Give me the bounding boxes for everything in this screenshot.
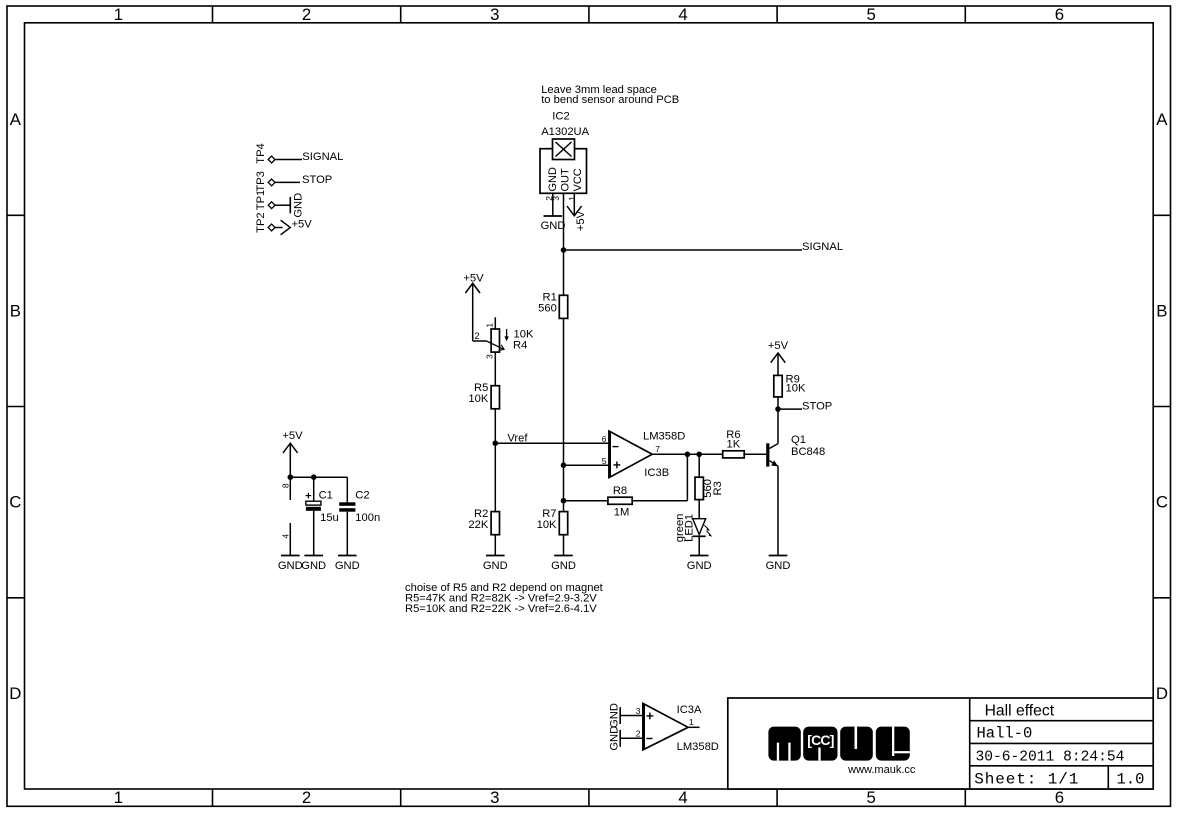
svg-text:4: 4 [678,5,687,24]
wire signal node to R1 [563,250,565,295]
wire R1 down to op-amp input line [563,318,565,511]
test point TP2 [255,212,275,233]
wire +5V rail to C1 C2 [290,476,347,478]
svg-text:3: 3 [490,5,499,24]
svg-text:GND: GND [687,560,712,572]
svg-text:22K: 22K [468,519,488,531]
svg-text:6: 6 [1055,788,1064,807]
svg-text:+5V: +5V [282,430,303,442]
wire Vref to op-amp pin 6 [495,442,609,444]
wire TP1 to GND [275,204,290,206]
ground (C2) [335,556,360,573]
wire op-amp output to Q1 base [652,453,766,455]
junction (STOP node) [775,406,781,412]
wire IC3A output pin 1 [688,726,700,728]
test point TP1 [255,190,275,211]
wire feedback to R8 [564,500,688,502]
ground (IC2 pin 2) [541,216,566,232]
ground (R7) [551,556,576,573]
resistor R1 560 [538,292,568,319]
wire IC3A pin 2 [620,737,643,739]
wire R3 branch down [698,454,700,477]
svg-text:GND: GND [608,726,620,751]
svg-text:C: C [1156,493,1168,512]
svg-text:30-6-2011 8:24:54: 30-6-2011 8:24:54 [976,750,1125,766]
test point TP3 [255,171,275,192]
svg-text:1.0: 1.0 [1117,771,1145,789]
junction (output / R8) [685,452,691,458]
svg-text:7: 7 [655,444,660,454]
svg-text:TP2: TP2 [255,212,267,233]
svg-text:3: 3 [490,788,499,807]
svg-text:10K: 10K [537,519,557,531]
svg-text:A: A [10,110,22,129]
svg-text:VCC: VCC [572,168,584,191]
svg-text:TP3: TP3 [255,171,267,192]
supply +5V (R9) [768,340,789,376]
wire TP2 to +5V [275,227,283,229]
resistor R5 10K [468,382,499,409]
svg-text:R8: R8 [613,485,627,497]
resistor R6 1K [723,429,745,458]
svg-text:1: 1 [689,717,694,727]
svg-text:SIGNAL: SIGNAL [302,151,343,163]
svg-text:10K: 10K [786,383,806,395]
svg-text:STOP: STOP [302,174,332,186]
resistor R9 10K [774,373,806,397]
wire IC2 pin 2 to ground [552,193,554,216]
svg-text:B: B [10,301,21,320]
svg-text:R4: R4 [513,340,527,352]
ground (TP1, rotated) [290,193,304,218]
svg-text:Q1: Q1 [791,434,806,446]
svg-text:5: 5 [867,788,876,807]
pin 8 stub of IC3 [281,477,291,500]
title block [728,698,1153,789]
MAUK logo [768,727,915,776]
capacitor C1 [306,477,339,555]
wire R3 to LED1 [698,500,700,519]
supply +5V (decoupling rail) [282,430,303,477]
supply +5V (IC2 pin 1, down arrow) [567,193,587,231]
ground (IC3A pin 3, rotated) [608,703,620,728]
ground (IC3A pin 2, rotated) [608,726,620,751]
wire R9 to STOP node [777,397,779,409]
test point TP4 [255,143,275,164]
svg-text:1M: 1M [614,507,630,519]
svg-text:[CC]: [CC] [807,732,833,748]
wire R5 down through Vref to R2 [494,409,496,512]
svg-text:1: 1 [114,788,123,807]
ground (IC3 pin 4) [278,556,303,573]
svg-text:3: 3 [636,706,641,716]
svg-text:+5V: +5V [292,219,313,231]
svg-text:GND: GND [547,167,559,192]
svg-text:GND: GND [608,703,620,728]
resistor R3 560 [695,477,724,499]
svg-text:GND: GND [278,560,303,572]
svg-text:2: 2 [302,5,311,24]
ground (R2) [483,556,508,573]
resistor R7 10K [537,508,568,535]
svg-text:+5V: +5V [463,272,484,284]
junction (rail / pin 8) [288,474,294,480]
svg-text:GND: GND [541,220,566,232]
wire TP4 to SIGNAL [275,159,302,161]
svg-text:to bend sensor around PCB: to bend sensor around PCB [541,94,679,106]
junction (output / R3) [696,452,702,458]
svg-text:560: 560 [538,303,557,315]
note: choise of R5 and R2 [405,582,604,615]
wire STOP [778,408,802,410]
wire SIGNAL [564,249,803,251]
transistor Q1 BC848 [766,434,825,467]
svg-text:10K: 10K [514,328,534,340]
wire feedback down from output [686,454,688,500]
supply +5V (R4) [463,272,484,341]
svg-text:IC2: IC2 [552,110,569,122]
svg-text:LM358D: LM358D [643,430,685,442]
wire TP3 to STOP [275,181,300,183]
ground (LED1) [687,556,712,573]
svg-text:Hall effect: Hall effect [985,702,1055,719]
junction (R8 feedback node) [561,498,567,504]
svg-text:1: 1 [484,323,494,328]
svg-text:GND: GND [335,560,360,572]
resistor R8 1M [608,485,632,518]
svg-text:1: 1 [567,196,577,201]
svg-text:BC848: BC848 [791,446,825,458]
svg-text:IC3A: IC3A [677,704,702,716]
svg-text:+5V: +5V [768,340,789,352]
svg-text:GND: GND [301,560,326,572]
svg-text:2: 2 [636,729,641,739]
wire R2 to ground [494,535,496,556]
svg-text:A: A [1156,110,1168,129]
svg-text:10K: 10K [468,393,488,405]
svg-text:Hall-0: Hall-0 [977,725,1033,743]
svg-text:5: 5 [602,456,607,466]
svg-text:OUT: OUT [560,168,572,192]
pin 4 stub of IC3 [281,523,291,556]
svg-text:www.mauk.cc: www.mauk.cc [847,764,916,776]
capacitor C2 [339,477,380,555]
op-amp IC3A LM358D [636,703,719,752]
svg-text:GND: GND [766,560,791,572]
wire +5V to R4 wiper [473,340,487,342]
hall sensor IC2 A1302UA [540,110,590,200]
note: leave 3mm lead space [541,84,679,106]
svg-text:6: 6 [602,434,607,444]
wire to op-amp pin 5 [564,464,610,466]
wire Q1 collector up to STOP node [777,409,779,444]
ground (C1) [301,556,326,573]
svg-text:D: D [9,684,21,703]
svg-text:GND: GND [483,560,508,572]
svg-text:R3: R3 [712,481,724,495]
svg-text:C2: C2 [355,489,369,501]
svg-text:1K: 1K [727,439,741,451]
svg-text:C: C [9,493,21,512]
ground (Q1) [766,556,791,573]
wire Q1 emitter to ground [777,466,779,555]
wire R7 to ground [563,535,565,556]
svg-text:5: 5 [867,5,876,24]
svg-text:3: 3 [484,354,494,359]
wire IC3A pin 3 [620,715,643,717]
svg-text:D: D [1156,684,1168,703]
svg-text:2: 2 [474,331,479,342]
wire LED1 to ground [698,536,700,555]
svg-text:4: 4 [678,788,687,807]
svg-text:C1: C1 [319,489,333,501]
svg-text:IC3B: IC3B [644,467,669,479]
svg-text:SIGNAL: SIGNAL [802,241,843,253]
svg-text:LED1: LED1 [683,514,695,542]
LED LED1 green [674,514,712,543]
svg-text:Sheet: 1/1: Sheet: 1/1 [974,770,1079,788]
svg-text:+5V: +5V [575,210,587,231]
junction (rail / C1) [311,474,317,480]
svg-text:STOP: STOP [802,400,832,412]
junction (Vref node) [493,440,499,446]
potentiometer R4 10K [474,317,534,359]
svg-text:A1302UA: A1302UA [541,126,589,138]
svg-text:TP1: TP1 [255,190,267,211]
svg-text:GND: GND [292,193,304,218]
svg-text:TP4: TP4 [255,143,267,164]
svg-text:1: 1 [114,5,123,24]
junction (pin 5 node) [561,462,567,468]
svg-text:4: 4 [281,534,291,539]
svg-text:GND: GND [551,560,576,572]
resistor R2 22K [468,508,499,535]
svg-text:LM358D: LM358D [677,741,719,753]
op-amp IC3B LM358D [602,430,686,479]
svg-text:8: 8 [281,483,291,488]
svg-text:B: B [1156,301,1167,320]
wire R4 pin 3 to R5 [494,352,496,386]
svg-text:15u: 15u [320,512,339,524]
svg-text:6: 6 [1055,5,1064,24]
svg-text:R5=10K and R2=22K -> Vref=2.6-: R5=10K and R2=22K -> Vref=2.6-4.1V [405,603,597,615]
svg-text:100n: 100n [355,512,380,524]
wire IC2 pin 3 down to signal node [563,193,565,250]
svg-text:2: 2 [302,788,311,807]
supply +5V (TP2, right arrow) [281,219,313,235]
junction (signal node) [561,247,567,253]
